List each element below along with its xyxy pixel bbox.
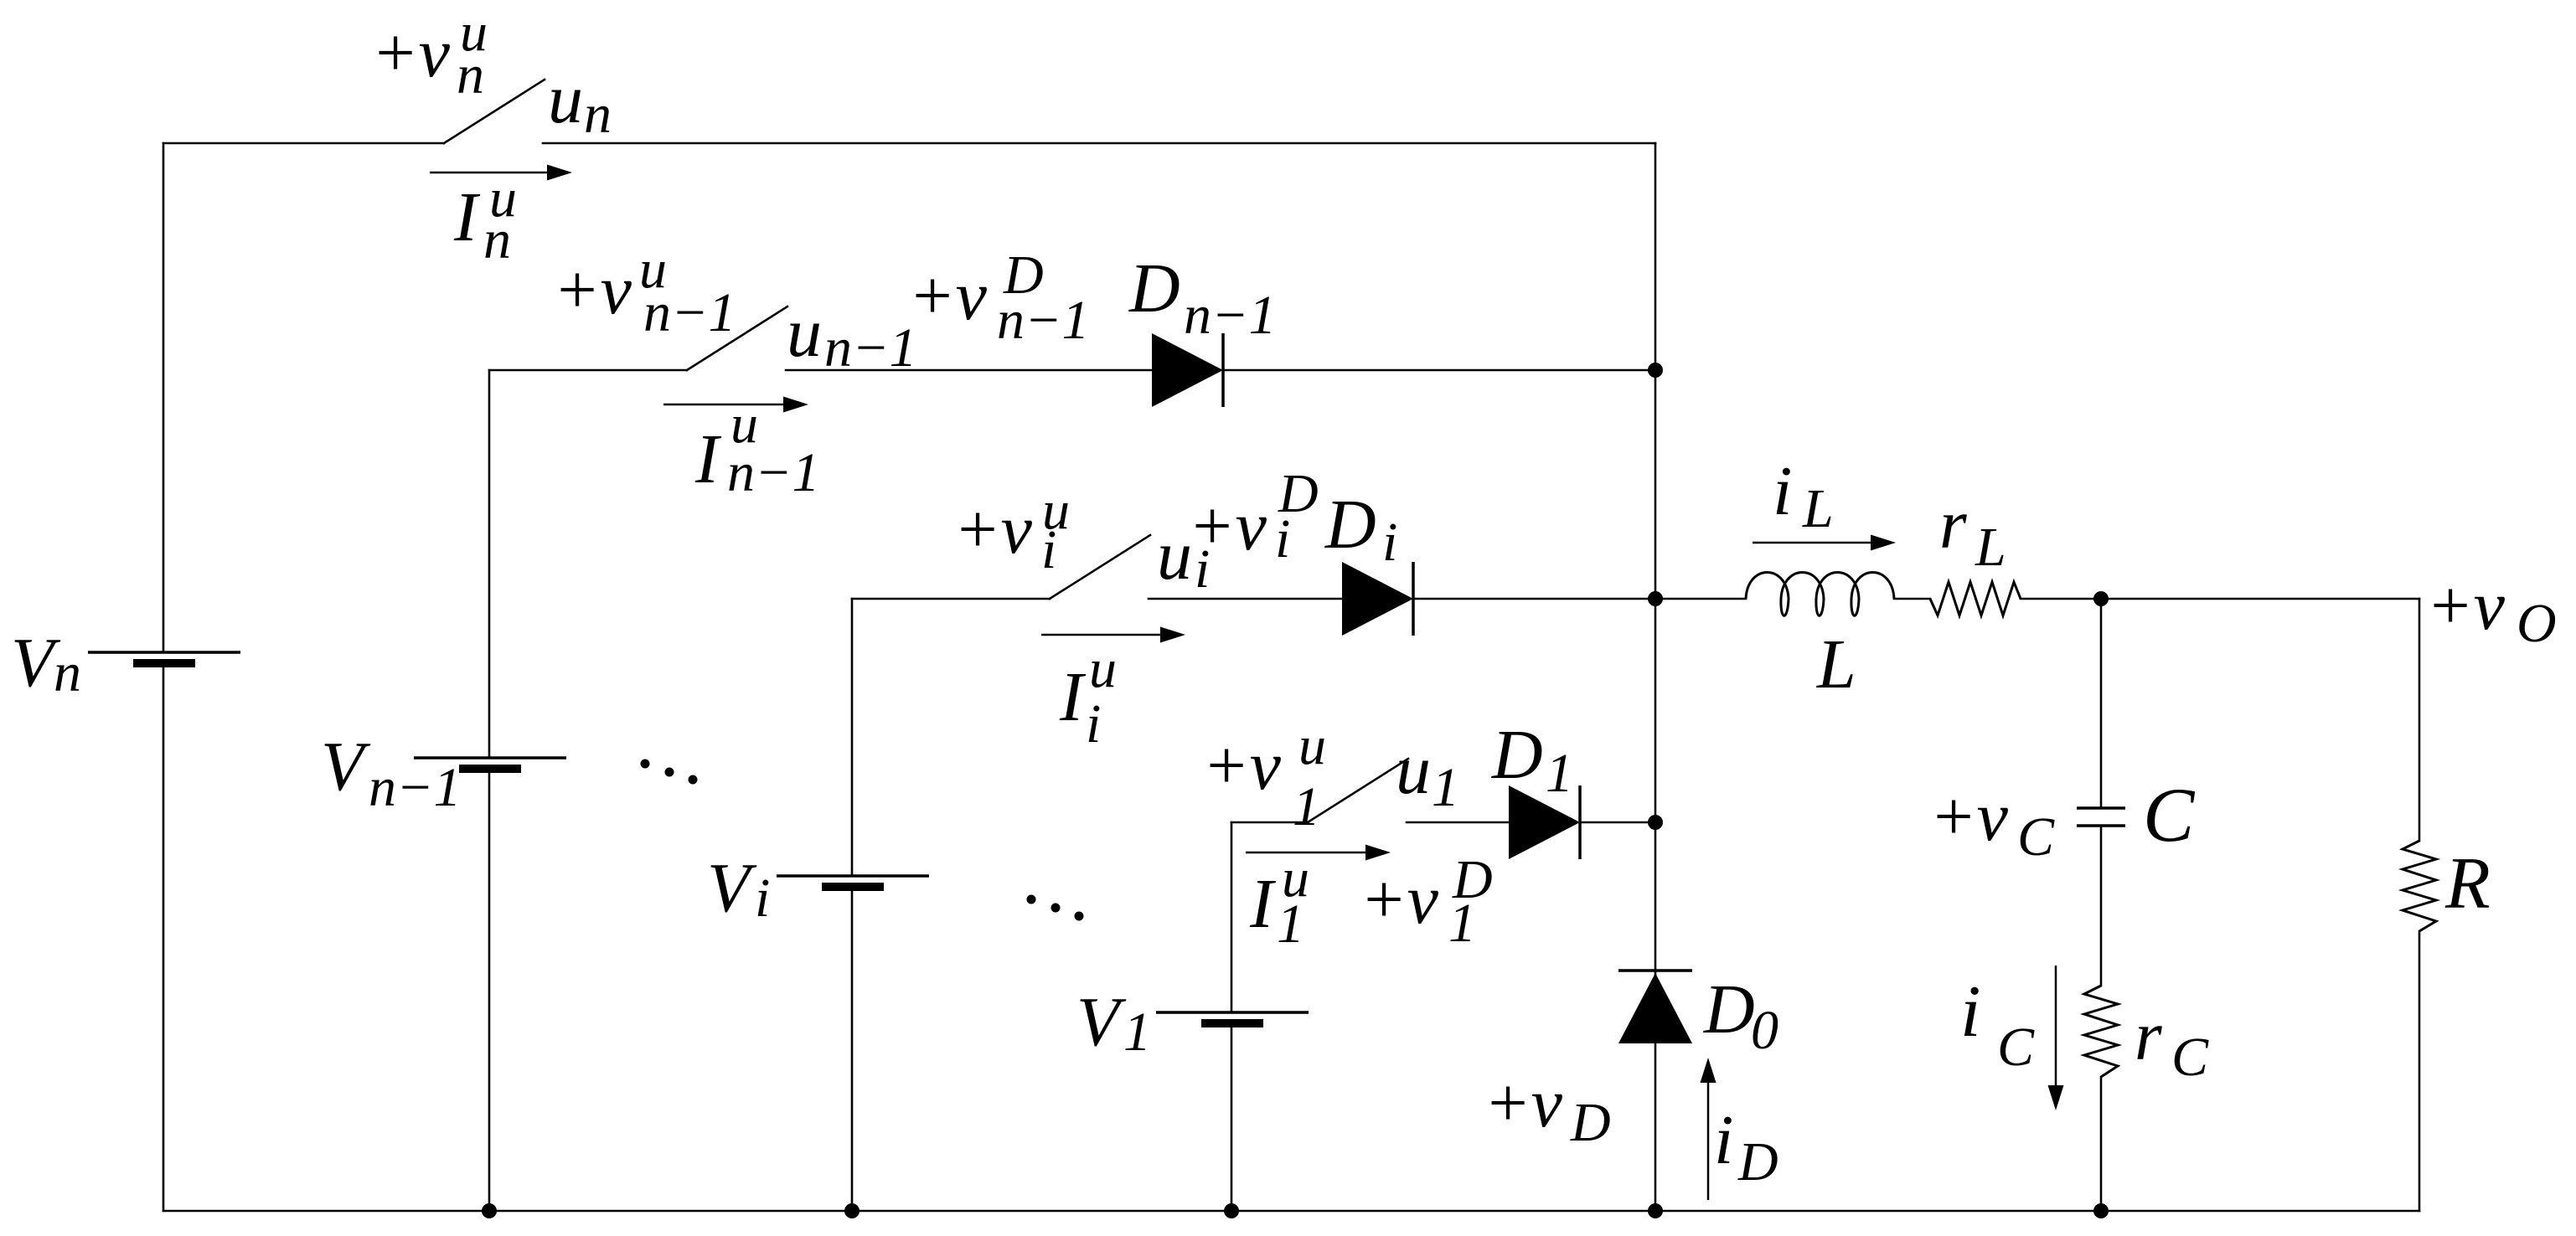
wire Vn-1 column upper <box>488 370 491 758</box>
resistor rL <box>1930 582 2021 615</box>
node dots upper ellipsis <box>641 760 698 785</box>
diode Di <box>1342 562 1413 636</box>
diode Dn-1 <box>1152 333 1223 407</box>
node dots lower ellipsis <box>1027 895 1084 921</box>
wire branch4 left <box>1231 821 1308 824</box>
inductor L <box>1746 573 1894 616</box>
wire branch4 right <box>1582 821 1655 824</box>
battery Vn <box>88 652 240 667</box>
node dot bus/rail <box>1648 1203 1663 1218</box>
wire cap column mid <box>2100 826 2103 986</box>
capacitor C <box>2077 808 2125 826</box>
current arrow I1 <box>1246 845 1391 861</box>
battery V1 <box>1156 1012 1309 1027</box>
wire left column lower <box>163 667 165 1211</box>
current arrow iC <box>2048 966 2064 1110</box>
wire branch2 left <box>489 369 687 372</box>
wire V1 column upper <box>1231 822 1233 1012</box>
node dot branch4/bus <box>1648 815 1663 830</box>
wire right column upper <box>2419 599 2421 841</box>
node dot V1/rail <box>1224 1203 1239 1218</box>
wire branch3 left <box>852 598 1050 600</box>
node dot cap/rail <box>2093 1203 2109 1218</box>
svg-text:L: L <box>1816 626 1856 703</box>
wire bottom rail <box>163 1210 2419 1213</box>
wire V1 column lower <box>1231 1027 1233 1211</box>
node dot Vi/rail <box>844 1203 860 1218</box>
wire bus vertical <box>1655 143 1657 1211</box>
svg-text:C: C <box>2143 772 2196 857</box>
svg-text:+vD1: +vD1 <box>1360 849 1493 954</box>
current arrow In <box>430 165 572 181</box>
wire top branch right <box>543 142 1655 145</box>
node dot branch2/bus <box>1648 363 1663 378</box>
wire Vi column upper <box>851 599 854 876</box>
current arrow Ii <box>1041 627 1185 643</box>
wire branch4 mid <box>1407 821 1509 824</box>
current arrow iD <box>1701 1058 1716 1200</box>
diode D1 <box>1509 785 1580 859</box>
wire branch3 mid <box>1149 598 1342 600</box>
svg-text:R: R <box>2444 843 2491 924</box>
wire left column upper <box>163 143 165 652</box>
wire branch2 right <box>1225 369 1655 372</box>
switch u_n blade <box>444 80 545 143</box>
current arrow iL <box>1753 535 1896 551</box>
resistor R <box>2403 841 2436 931</box>
diode D0 <box>1618 971 1692 1043</box>
wire cap column upper <box>2100 599 2103 808</box>
wire branch2 mid <box>786 369 1152 372</box>
battery Vi <box>777 876 929 891</box>
switch u_1 blade <box>1308 759 1408 822</box>
wire Vn-1 column lower <box>488 773 491 1211</box>
wire top branch left <box>163 142 444 145</box>
svg-text:+vun: +vun <box>371 2 488 106</box>
switch u_n-1 blade <box>687 306 787 370</box>
wire Vi column lower <box>851 891 854 1211</box>
switch u_i blade <box>1050 535 1150 599</box>
current arrow In-1 <box>663 397 808 413</box>
battery Vn-1 <box>414 758 566 773</box>
wire right column lower <box>2419 931 2421 1211</box>
wire branch3 right <box>1415 598 1746 600</box>
resistor rC <box>2084 986 2118 1077</box>
wire cap column lower <box>2100 1077 2103 1211</box>
wire inductor to rL <box>1894 598 1930 600</box>
node dot Vn-1/rail <box>482 1203 497 1218</box>
wire rL to vO corner <box>2021 598 2419 600</box>
node dot branch3/bus <box>1648 591 1663 606</box>
node dot cap top <box>2093 591 2109 606</box>
svg-text:+vui: +vui <box>953 480 1070 580</box>
